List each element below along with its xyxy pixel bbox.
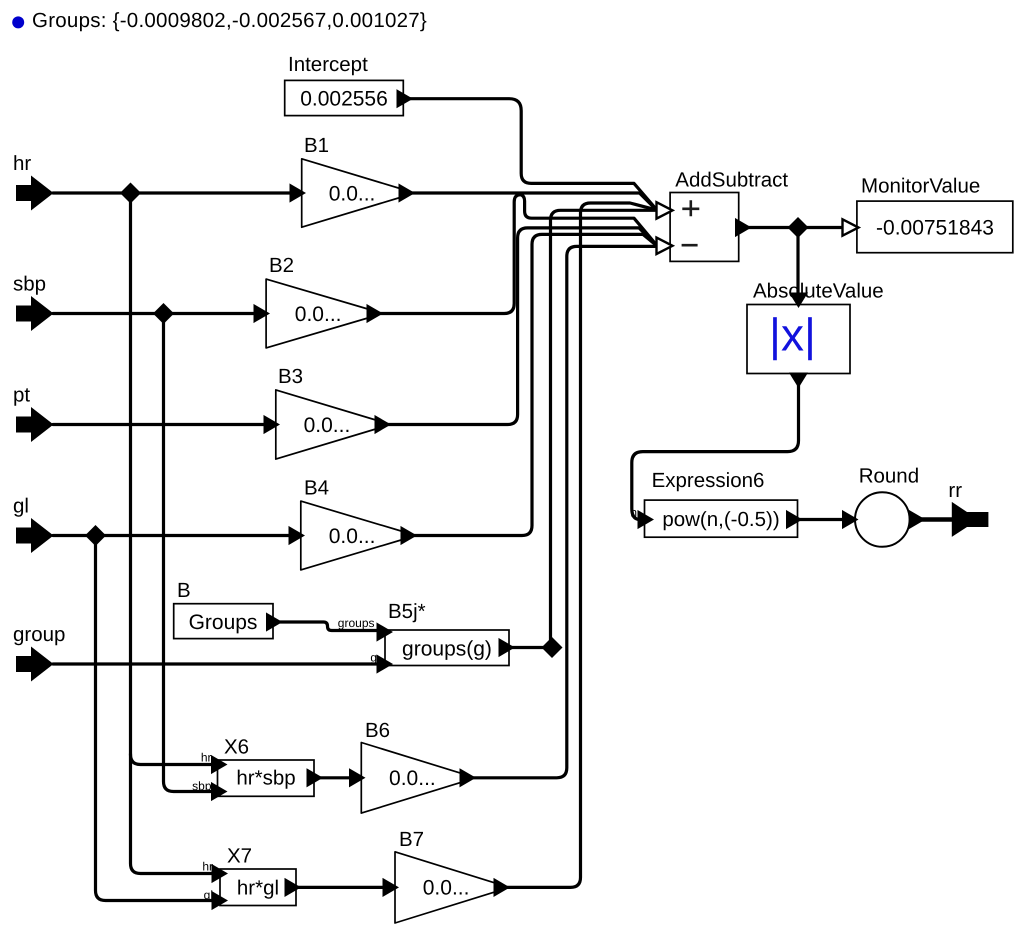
- svg-text:-0.00751843: -0.00751843: [876, 216, 994, 239]
- output arrow B1: [399, 184, 414, 201]
- input port sbp: [16, 296, 54, 331]
- input arrow X6 sbp: [212, 783, 227, 800]
- svg-text:pow(n,(-0.5)): pow(n,(-0.5)): [662, 508, 779, 531]
- wire sbp down to X6 sbp input: [164, 314, 213, 792]
- wire pt to B3: [53, 423, 268, 426]
- wire hr down to X7 hr input: [131, 754, 215, 874]
- block MonitorValue: [857, 201, 1013, 253]
- svg-text:group: group: [13, 623, 65, 646]
- svg-text:B3: B3: [278, 365, 303, 388]
- input arrow B6: [350, 769, 365, 786]
- input arrow B3: [264, 416, 279, 433]
- input arrow B2: [254, 305, 269, 322]
- svg-text:X6: X6: [224, 736, 249, 759]
- input arrow Round: [843, 511, 858, 528]
- svg-text:B5j*: B5j*: [388, 600, 426, 623]
- svg-text:sbp: sbp: [13, 273, 46, 296]
- svg-text:|x|: |x|: [769, 309, 816, 361]
- output arrow B4: [401, 527, 416, 544]
- svg-text:Groups: Groups: [189, 611, 258, 634]
- svg-text:0.0...: 0.0...: [329, 182, 376, 205]
- wire gl down to X7 gl input: [96, 536, 215, 901]
- input arrow B1: [290, 184, 305, 201]
- wire B5j* up to AddSubtract plus: [551, 210, 656, 647]
- input arrow B5j* groups: [377, 623, 392, 640]
- gain B1: [302, 159, 402, 227]
- junction sbp: [153, 303, 174, 324]
- wire B3 to AddSubtract minus: [388, 228, 657, 425]
- input arrow AddSubtract plus: [657, 202, 673, 218]
- input arrow X7 gl: [212, 892, 227, 909]
- output arrow Expression6: [787, 511, 802, 528]
- svg-text:0.0...: 0.0...: [329, 525, 376, 548]
- output arrow AbsoluteValue: [790, 373, 807, 387]
- gain B2: [266, 279, 369, 348]
- input port gl: [16, 518, 54, 553]
- wire gl to B4: [53, 534, 293, 537]
- output arrow AddSubtract: [736, 219, 751, 236]
- output arrow B7: [494, 879, 509, 896]
- block X7 hr*gl: [220, 869, 296, 906]
- svg-text:hr: hr: [201, 751, 212, 765]
- svg-text:0.0...: 0.0...: [295, 303, 342, 326]
- output port rr: [952, 502, 989, 537]
- svg-text:gl: gl: [13, 495, 29, 518]
- input port hr: [16, 176, 54, 211]
- junction hr: [120, 183, 141, 204]
- svg-text:pt: pt: [13, 384, 30, 407]
- svg-text:B1: B1: [304, 134, 329, 157]
- input port pt: [16, 407, 54, 442]
- output arrow B6: [460, 769, 475, 786]
- svg-text:MonitorValue: MonitorValue: [861, 175, 980, 198]
- gain B6: [361, 743, 463, 814]
- output arrow Intercept: [397, 90, 412, 107]
- wire B4 to AddSubtract minus: [414, 234, 657, 535]
- wire B5j* to AddSubtract plus: [512, 646, 551, 649]
- input arrow AddSubtract minus: [657, 238, 673, 254]
- svg-text:sbp: sbp: [192, 779, 212, 793]
- svg-text:Intercept: Intercept: [288, 53, 368, 76]
- input arrow Expression6 n: [638, 511, 653, 528]
- svg-text:hr*gl: hr*gl: [237, 876, 279, 899]
- block B5j* groups(g): [385, 630, 509, 666]
- junction AddSubtract output: [788, 217, 809, 238]
- output arrow Round: [910, 511, 925, 528]
- svg-text:0.0...: 0.0...: [423, 877, 470, 900]
- svg-text:AddSubtract: AddSubtract: [675, 169, 788, 192]
- wire sbp to B2: [53, 312, 258, 315]
- input arrow X7 hr: [212, 865, 227, 882]
- wire group to B5j* g input: [53, 662, 379, 665]
- gain B3: [276, 390, 378, 459]
- svg-text:B2: B2: [269, 254, 294, 277]
- svg-text:B7: B7: [399, 828, 424, 851]
- input arrow B7: [383, 879, 398, 896]
- input arrow X6 hr: [212, 756, 227, 773]
- junction gl: [85, 525, 106, 546]
- gain B7: [395, 852, 497, 923]
- block B Groups constant: [174, 604, 273, 639]
- wire X6 to B6: [320, 776, 350, 779]
- block Expression6: [645, 500, 798, 537]
- wire X7 to B7: [298, 886, 384, 889]
- wire B to B5j* groups input: [280, 622, 378, 631]
- svg-text:Groups: {-0.0009802,-0.002567,: Groups: {-0.0009802,-0.002567,0.001027}: [32, 9, 427, 32]
- wire hr down to X6 hr input: [131, 193, 213, 765]
- svg-text:0.0...: 0.0...: [304, 414, 351, 437]
- svg-text:groups(g): groups(g): [402, 638, 492, 661]
- svg-text:n: n: [630, 506, 637, 520]
- svg-text:hr: hr: [202, 860, 213, 874]
- input arrow AbsoluteValue: [790, 293, 807, 307]
- junction B5j* output: [542, 637, 563, 658]
- svg-text:hr: hr: [13, 152, 31, 175]
- block Round circle: [855, 492, 910, 547]
- block Intercept: [285, 80, 404, 115]
- output arrow B5j*: [499, 639, 514, 656]
- input arrow B5j* g: [377, 655, 392, 672]
- input port group: [16, 647, 54, 682]
- svg-text:Expression6: Expression6: [652, 469, 765, 492]
- svg-text:0.002556: 0.002556: [300, 88, 388, 111]
- svg-text:B4: B4: [304, 477, 329, 500]
- svg-text:Round: Round: [859, 464, 919, 487]
- wire B1 to AddSubtract plus: [412, 193, 657, 210]
- svg-text:B: B: [177, 579, 191, 602]
- svg-text:0.0...: 0.0...: [389, 767, 436, 790]
- output arrow X6: [307, 769, 322, 786]
- wire junction down to AbsoluteValue: [796, 228, 799, 296]
- output arrow B2: [367, 305, 382, 322]
- gain B4: [301, 501, 403, 570]
- wire AddSubtract to MonitorValue: [748, 226, 844, 229]
- block X6 hr*sbp: [218, 760, 315, 796]
- legend bullet: [12, 16, 24, 28]
- block AbsoluteValue: [747, 305, 850, 374]
- svg-text:groups: groups: [338, 616, 375, 630]
- svg-text:rr: rr: [948, 479, 962, 502]
- wire B6 to AddSubtract minus: [473, 246, 655, 777]
- output arrow B3: [375, 416, 390, 433]
- svg-text:AbsoluteValue: AbsoluteValue: [753, 280, 884, 303]
- wire B7 to AddSubtract plus: [507, 203, 657, 887]
- svg-text:X7: X7: [227, 845, 252, 868]
- wire Expression6 to Round: [800, 518, 844, 521]
- output arrow X7: [285, 879, 300, 896]
- output arrow B: [267, 613, 282, 630]
- wire hr to B1: [53, 191, 294, 194]
- wire Round to rr port: [922, 517, 953, 522]
- wire AbsoluteValue to Expression6: [632, 384, 799, 520]
- wire Intercept to AddSubtract plus: [410, 99, 657, 210]
- block AddSubtract: [670, 193, 739, 262]
- wire B2 to AddSubtract minus: [380, 195, 657, 314]
- svg-text:hr*sbp: hr*sbp: [236, 767, 295, 790]
- input arrow MonitorValue: [843, 219, 859, 235]
- input arrow B4: [289, 527, 304, 544]
- svg-text:g: g: [370, 651, 377, 665]
- svg-text:B6: B6: [365, 719, 390, 742]
